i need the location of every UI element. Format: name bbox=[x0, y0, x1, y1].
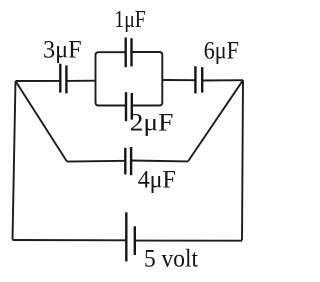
svg-text:5 volt: 5 volt bbox=[144, 245, 198, 272]
svg-text:2μF: 2μF bbox=[130, 110, 174, 137]
svg-text:4μF: 4μF bbox=[138, 166, 176, 193]
svg-text:3μF: 3μF bbox=[43, 37, 82, 64]
svg-text:6μF: 6μF bbox=[204, 37, 239, 64]
svg-text:1μF: 1μF bbox=[114, 7, 146, 33]
